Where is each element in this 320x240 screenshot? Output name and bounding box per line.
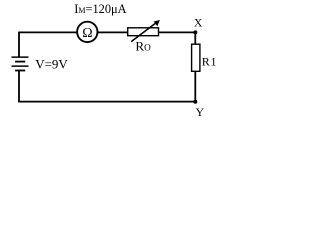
svg-text:X: X xyxy=(194,17,203,29)
wire right lower (R1 down to node Y) xyxy=(194,71,196,101)
wire left lower (battery down to bottom corner) xyxy=(18,71,20,103)
wire top (left corner to node X) xyxy=(19,31,195,33)
svg-text:Y: Y xyxy=(196,107,205,119)
svg-text:R1: R1 xyxy=(202,54,217,68)
node X junction dot xyxy=(193,30,197,34)
resistor R1 body xyxy=(192,44,200,71)
wire right upper (node X down to R1) xyxy=(194,32,196,44)
battery V (two cells) xyxy=(12,57,29,70)
variable resistor R0 arrow xyxy=(131,20,160,42)
svg-text:Ω: Ω xyxy=(82,26,92,41)
svg-text:V=9V: V=9V xyxy=(35,57,68,72)
meter U1 (galvanometer, ohm symbol) xyxy=(77,22,97,42)
variable resistor R0 (rheostat body) xyxy=(128,28,159,36)
wire left upper (corner down to battery) xyxy=(18,32,20,57)
node Y junction dot xyxy=(193,100,197,104)
wire bottom (left corner to node Y) xyxy=(19,101,195,103)
